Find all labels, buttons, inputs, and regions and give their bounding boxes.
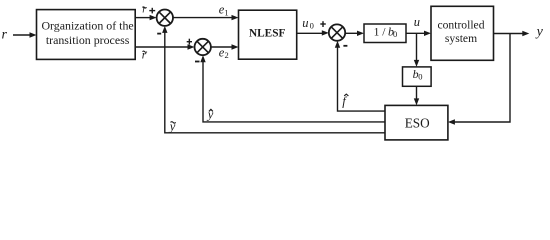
svg-text:ESO: ESO: [405, 116, 430, 131]
block U5: b0: [403, 67, 432, 86]
plus sign S3: [320, 23, 326, 25]
wire: u branch down to b0: [416, 33, 418, 61]
svg-text:2: 2: [225, 50, 229, 60]
wire u: 1/b0 to controlled system: [406, 32, 425, 34]
arrowhead into b0: [414, 60, 419, 67]
wire rbar: block to summing junction S1: [135, 17, 151, 19]
summing junction S1: [157, 10, 173, 26]
arrowhead e1 into NLESF: [232, 15, 239, 20]
minus sign S1: [157, 33, 161, 35]
svg-text:y: y: [206, 107, 214, 121]
wire e2: S2 to NLESF: [211, 46, 232, 48]
block U1: Organization of the transition process: [37, 10, 136, 60]
svg-text:controlled: controlled: [437, 18, 484, 31]
svg-text:r: r: [2, 27, 8, 42]
svg-text:system: system: [445, 32, 477, 45]
wire y output: [494, 33, 523, 35]
wire r input: [13, 34, 31, 36]
svg-text:r: r: [142, 5, 146, 16]
wire yhat: ESO to S2: [203, 62, 385, 122]
plus sign S2: [187, 41, 192, 43]
svg-text:Organization of the: Organization of the: [41, 19, 133, 33]
wire: b0 to ESO: [416, 86, 418, 99]
block U4: controlled system: [431, 6, 494, 60]
arrowhead e2 into NLESF: [232, 44, 239, 49]
wire u0: NLESF to summing junction S3: [297, 32, 323, 34]
arrowhead yhat into S2: [200, 55, 205, 62]
svg-text:u: u: [414, 15, 420, 29]
wire e1: S1 to NLESF: [173, 17, 232, 19]
arrowhead rtilde into S2: [188, 44, 195, 49]
minus sign S2: [195, 61, 200, 63]
summing junction S2: [195, 39, 211, 55]
wire: S3 to 1/b0 block: [345, 32, 358, 34]
arrowhead into org block: [30, 32, 37, 37]
arrowhead ybranch into ESO right: [448, 119, 455, 124]
block U6: ESO: [385, 105, 448, 139]
arrowhead u into controlled system: [424, 31, 431, 36]
wire: y branch down into ESO right side: [454, 34, 510, 123]
svg-text:0: 0: [310, 20, 314, 30]
svg-text:u: u: [302, 16, 308, 30]
svg-text:y: y: [535, 24, 544, 39]
arrowhead ytilde into S1: [162, 26, 167, 33]
arrowhead fhat into S3: [335, 41, 340, 48]
wire rtilde: block to summing junction S2: [135, 46, 189, 48]
wire ytilde: ESO to S1: [165, 32, 385, 133]
svg-text:transition process: transition process: [46, 33, 130, 47]
arrowhead rbar into S1: [150, 15, 157, 20]
summing junction S3: [329, 24, 345, 40]
minus sign S3: [343, 45, 347, 47]
svg-text:0: 0: [393, 29, 397, 39]
arrowhead u0 into S3: [322, 30, 329, 35]
svg-text:1 /: 1 /: [374, 27, 387, 39]
wire fhat: ESO to S3: [338, 47, 386, 111]
svg-text:f: f: [342, 94, 347, 108]
svg-text:0: 0: [418, 71, 422, 81]
plus sign S1: [149, 10, 155, 12]
arrowhead y output: [522, 31, 529, 36]
block U2: NLESF: [239, 10, 297, 59]
svg-text:1: 1: [224, 8, 228, 18]
block U3: 1/b0: [364, 24, 406, 43]
svg-text:NLESF: NLESF: [249, 28, 286, 40]
arrowhead into 1/b0: [357, 31, 364, 36]
arrowhead b0 into ESO: [414, 98, 419, 105]
